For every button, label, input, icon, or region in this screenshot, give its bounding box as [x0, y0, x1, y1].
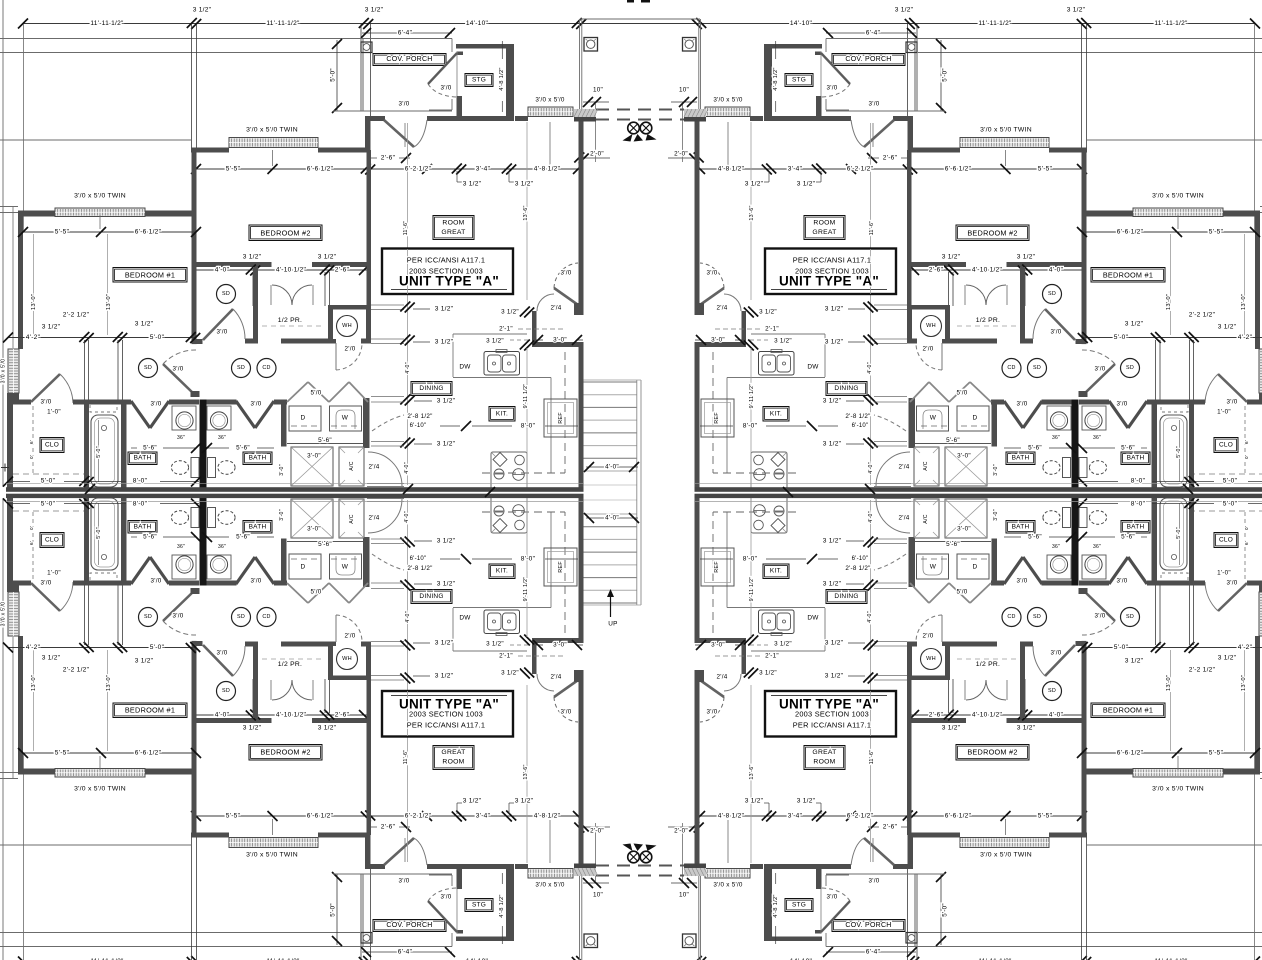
svg-text:3'-0": 3'-0" [957, 453, 971, 460]
svg-text:6'-6 1/2": 6'-6 1/2" [135, 750, 162, 757]
svg-text:3 1/2": 3 1/2" [435, 339, 454, 346]
svg-text:6'-6 1/2": 6'-6 1/2" [945, 166, 972, 173]
svg-text:6'-6 1/2": 6'-6 1/2" [1117, 229, 1144, 236]
svg-text:W: W [342, 415, 349, 422]
svg-text:3 1/2": 3 1/2" [135, 658, 154, 665]
svg-text:4'-2": 4'-2" [26, 334, 41, 341]
svg-text:5'/0: 5'/0 [957, 390, 968, 397]
svg-text:6'-4": 6'-4" [398, 30, 413, 37]
svg-text:STG: STG [792, 902, 806, 909]
svg-text:1'-0": 1'-0" [47, 409, 61, 416]
svg-text:2'/4: 2'/4 [551, 674, 562, 681]
svg-text:BATH: BATH [1012, 524, 1030, 531]
svg-text:0': 0' [29, 526, 34, 530]
svg-text:5'-6": 5'-6" [1028, 534, 1042, 541]
svg-text:3'/0: 3'/0 [399, 101, 410, 108]
svg-text:2'/0: 2'/0 [923, 633, 934, 640]
svg-text:13'-0": 13'-0" [31, 675, 37, 691]
svg-text:D: D [973, 415, 978, 422]
svg-text:6'-2 1/2": 6'-2 1/2" [847, 166, 874, 173]
svg-text:6'-2 1/2": 6'-2 1/2" [847, 813, 874, 820]
svg-text:CD: CD [1007, 614, 1015, 620]
svg-text:3'/0: 3'/0 [1051, 650, 1062, 657]
svg-text:2'/4: 2'/4 [369, 515, 380, 522]
svg-text:2'-2 1/2": 2'-2 1/2" [63, 312, 90, 319]
svg-text:3 1/2": 3 1/2" [318, 725, 337, 732]
svg-text:10": 10" [593, 87, 603, 94]
svg-text:3'-4": 3'-4" [788, 166, 803, 173]
svg-text:4'-0": 4'-0" [215, 712, 230, 719]
svg-text:3'/0: 3'/0 [441, 894, 452, 901]
svg-text:8'-0": 8'-0" [743, 556, 758, 563]
svg-text:5'-5": 5'-5" [55, 229, 70, 236]
svg-text:11'-11 1/2": 11'-11 1/2" [90, 20, 124, 27]
svg-text:6': 6' [1244, 440, 1249, 444]
svg-text:3 1/2": 3 1/2" [1017, 254, 1036, 261]
svg-text:0': 0' [1244, 526, 1249, 530]
svg-text:3 1/2": 3 1/2" [1125, 658, 1144, 665]
svg-text:KIT.: KIT. [496, 411, 508, 418]
svg-text:3'/0: 3'/0 [151, 578, 162, 585]
svg-text:5'-6": 5'-6" [318, 541, 332, 548]
svg-text:3 1/2": 3 1/2" [243, 254, 262, 261]
svg-text:CD: CD [262, 365, 270, 371]
svg-text:A/C: A/C [349, 514, 355, 523]
svg-text:36": 36" [1093, 544, 1101, 550]
svg-text:2'/4: 2'/4 [899, 464, 910, 471]
svg-text:5'-0": 5'-0" [1114, 334, 1129, 341]
svg-text:2'-2 1/2": 2'-2 1/2" [1189, 312, 1216, 319]
svg-text:W: W [930, 564, 937, 571]
svg-text:DINING: DINING [834, 385, 858, 392]
svg-text:2'-6": 2'-6" [883, 155, 898, 162]
svg-text:4'-0": 4'-0" [405, 611, 411, 623]
svg-text:DINING: DINING [419, 593, 443, 600]
svg-text:1/2 PR.: 1/2 PR. [976, 661, 1000, 668]
svg-text:5'-0": 5'-0" [1114, 644, 1129, 651]
svg-text:5'-5": 5'-5" [1209, 229, 1224, 236]
svg-text:BEDROOM #2: BEDROOM #2 [260, 229, 310, 238]
svg-text:3 1/2": 3 1/2" [797, 798, 816, 805]
svg-text:13'-6": 13'-6" [749, 205, 755, 220]
svg-text:GREAT: GREAT [812, 749, 836, 756]
svg-text:6'-4": 6'-4" [398, 949, 413, 956]
svg-text:6'-6 1/2": 6'-6 1/2" [135, 229, 162, 236]
svg-text:3 1/2": 3 1/2" [797, 181, 816, 188]
svg-text:8'-0": 8'-0" [1131, 478, 1146, 485]
svg-text:3 1/2": 3 1/2" [1218, 324, 1237, 331]
svg-text:2'-6": 2'-6" [929, 712, 944, 719]
svg-text:6'-2 1/2": 6'-2 1/2" [405, 813, 432, 820]
svg-text:1/2 PR.: 1/2 PR. [278, 317, 302, 324]
svg-text:0': 0' [29, 455, 34, 459]
svg-text:3'/0 x 5'/0: 3'/0 x 5'/0 [1, 359, 7, 384]
svg-text:SD: SD [237, 614, 245, 620]
svg-text:DW: DW [459, 364, 471, 371]
svg-text:11'-11 1/2": 11'-11 1/2" [266, 20, 300, 27]
svg-text:3 1/2": 3 1/2" [501, 670, 519, 677]
svg-text:1/2 PR.: 1/2 PR. [278, 661, 302, 668]
svg-text:3'/0 x 5'/0 TWIN: 3'/0 x 5'/0 TWIN [980, 852, 1032, 859]
svg-text:BATH: BATH [249, 455, 267, 462]
svg-text:2'/0: 2'/0 [345, 633, 356, 640]
svg-text:4'-10 1/2": 4'-10 1/2" [972, 712, 1003, 719]
svg-text:3'-4": 3'-4" [476, 166, 491, 173]
svg-text:COV. PORCH: COV. PORCH [845, 922, 891, 929]
svg-text:4'-8 1/2": 4'-8 1/2" [534, 813, 561, 820]
svg-text:3 1/2": 3 1/2" [42, 655, 61, 662]
svg-text:WH: WH [342, 323, 352, 329]
svg-text:2'-6": 2'-6" [381, 824, 396, 831]
svg-text:4'-0": 4'-0" [868, 511, 874, 523]
svg-text:GREAT: GREAT [441, 229, 465, 236]
svg-text:4'-0": 4'-0" [404, 462, 410, 474]
svg-text:3 1/2": 3 1/2" [435, 306, 454, 313]
svg-text:CD: CD [1007, 365, 1015, 371]
svg-text:3'/0 x 5'/0: 3'/0 x 5'/0 [535, 882, 565, 889]
svg-text:3'/0: 3'/0 [41, 580, 52, 587]
svg-text:3'-0": 3'-0" [711, 642, 725, 649]
svg-text:3'/0 x 5'/0 TWIN: 3'/0 x 5'/0 TWIN [1152, 193, 1204, 200]
svg-text:3 1/2": 3 1/2" [825, 673, 844, 680]
svg-text:5'-5": 5'-5" [226, 166, 241, 173]
svg-text:5'-0": 5'-0" [96, 446, 102, 458]
svg-text:4'-8 1/2": 4'-8 1/2" [499, 67, 505, 90]
svg-text:4'-8 1/2": 4'-8 1/2" [718, 166, 745, 173]
svg-text:36": 36" [177, 544, 185, 550]
svg-text:BATH: BATH [249, 524, 267, 531]
svg-text:9'-11 1/2": 9'-11 1/2" [523, 577, 529, 602]
svg-text:3'/0: 3'/0 [561, 709, 572, 716]
svg-text:SD: SD [1033, 614, 1041, 620]
svg-text:3'/0 x 5'/0 TWIN: 3'/0 x 5'/0 TWIN [246, 127, 298, 134]
svg-text:3'/0: 3'/0 [707, 270, 718, 277]
svg-text:10": 10" [679, 892, 689, 899]
svg-text:8'-0": 8'-0" [1131, 501, 1146, 508]
svg-text:5'/0: 5'/0 [311, 390, 322, 397]
svg-text:3'/0: 3'/0 [217, 329, 228, 336]
svg-text:DW: DW [807, 615, 819, 622]
svg-text:3'/0: 3'/0 [1117, 401, 1128, 408]
svg-text:3 1/2": 3 1/2" [942, 725, 961, 732]
svg-text:4'-2": 4'-2" [26, 644, 41, 651]
svg-text:3'/0 x 5'/0: 3'/0 x 5'/0 [713, 882, 743, 889]
svg-text:5'-6": 5'-6" [143, 445, 157, 452]
svg-text:D: D [301, 564, 306, 571]
svg-text:4'-10 1/2": 4'-10 1/2" [276, 712, 307, 719]
svg-text:5'-0": 5'-0" [150, 334, 165, 341]
svg-text:1'-0": 1'-0" [1217, 409, 1231, 416]
svg-text:36": 36" [218, 435, 226, 441]
svg-text:4'-8 1/2": 4'-8 1/2" [718, 813, 745, 820]
svg-text:DW: DW [807, 364, 819, 371]
svg-text:KIT.: KIT. [770, 568, 782, 575]
svg-text:2'-6": 2'-6" [883, 824, 898, 831]
svg-text:3 1/2": 3 1/2" [437, 581, 456, 588]
svg-text:36": 36" [1093, 435, 1101, 441]
svg-text:4'-0": 4'-0" [867, 611, 873, 623]
svg-text:3 1/2": 3 1/2" [942, 254, 961, 261]
svg-text:3'-0": 3'-0" [553, 642, 567, 649]
svg-text:3 1/2": 3 1/2" [823, 581, 842, 588]
svg-text:3'-0": 3'-0" [993, 464, 999, 476]
svg-text:4'-0": 4'-0" [215, 267, 230, 274]
svg-text:2'/0: 2'/0 [923, 346, 934, 353]
svg-text:STG: STG [472, 902, 486, 909]
svg-text:13'-0": 13'-0" [106, 675, 112, 691]
svg-text:BEDROOM #2: BEDROOM #2 [260, 748, 310, 757]
svg-text:4'-8 1/2": 4'-8 1/2" [773, 894, 779, 917]
svg-text:2'-8 1/2": 2'-8 1/2" [845, 413, 870, 420]
svg-text:UNIT TYPE "A": UNIT TYPE "A" [779, 274, 879, 289]
svg-text:2'-6": 2'-6" [335, 267, 350, 274]
svg-text:3'-4": 3'-4" [788, 813, 803, 820]
svg-text:9'-11 1/2": 9'-11 1/2" [749, 577, 755, 602]
svg-text:BEDROOM #1: BEDROOM #1 [1103, 271, 1153, 280]
svg-text:REF: REF [558, 561, 564, 573]
svg-text:0': 0' [1244, 455, 1249, 459]
svg-text:5'/0: 5'/0 [957, 589, 968, 596]
svg-text:11'-6": 11'-6" [869, 221, 875, 236]
svg-text:3 1/2": 3 1/2" [435, 673, 454, 680]
svg-text:14'-10": 14'-10" [790, 20, 813, 27]
svg-text:3'/0: 3'/0 [1227, 399, 1238, 406]
svg-text:3 1/2": 3 1/2" [437, 398, 456, 405]
svg-text:PER ICC/ANSI A117.1: PER ICC/ANSI A117.1 [793, 721, 872, 730]
svg-text:BATH: BATH [1012, 455, 1030, 462]
svg-text:3'/0: 3'/0 [441, 85, 452, 92]
svg-text:5'-0": 5'-0" [330, 903, 337, 917]
svg-text:13'-0": 13'-0" [31, 294, 37, 310]
svg-text:3 1/2": 3 1/2" [318, 254, 337, 261]
svg-text:3 1/2": 3 1/2" [515, 181, 534, 188]
svg-text:2'-0": 2'-0" [590, 151, 604, 158]
svg-text:5'-0": 5'-0" [1176, 527, 1182, 539]
svg-text:DINING: DINING [834, 593, 858, 600]
svg-text:3 1/2": 3 1/2" [193, 7, 212, 14]
svg-text:1'-0": 1'-0" [1217, 570, 1231, 577]
svg-text:BEDROOM #2: BEDROOM #2 [967, 748, 1017, 757]
svg-text:3'/0: 3'/0 [1117, 578, 1128, 585]
svg-text:5'-6": 5'-6" [236, 534, 250, 541]
svg-text:14'-10": 14'-10" [466, 20, 489, 27]
svg-text:5'-0": 5'-0" [41, 501, 56, 508]
svg-text:3 1/2": 3 1/2" [486, 338, 504, 345]
svg-text:5'-5": 5'-5" [226, 813, 241, 820]
svg-text:BATH: BATH [134, 524, 152, 531]
svg-text:PER ICC/ANSI A117.1: PER ICC/ANSI A117.1 [407, 256, 486, 265]
svg-text:3'/0: 3'/0 [561, 270, 572, 277]
svg-text:2'-1": 2'-1" [765, 653, 779, 660]
svg-text:8'-0": 8'-0" [521, 423, 536, 430]
svg-text:ROOM: ROOM [442, 759, 464, 766]
svg-text:2'-0": 2'-0" [674, 828, 688, 835]
svg-text:WH: WH [926, 656, 936, 662]
svg-text:3'/0: 3'/0 [1051, 329, 1062, 336]
svg-text:3'-0": 3'-0" [957, 526, 971, 533]
svg-text:D: D [301, 415, 306, 422]
svg-text:4'-0": 4'-0" [404, 511, 410, 523]
svg-text:4'-0": 4'-0" [867, 362, 873, 374]
svg-text:5'-6": 5'-6" [1028, 445, 1042, 452]
svg-text:5'-0": 5'-0" [1223, 501, 1238, 508]
svg-text:2'/0: 2'/0 [345, 346, 356, 353]
svg-text:2'-2 1/2": 2'-2 1/2" [63, 667, 90, 674]
svg-text:SD: SD [1126, 614, 1134, 620]
svg-text:1'-0": 1'-0" [47, 570, 61, 577]
svg-text:3 1/2": 3 1/2" [823, 398, 842, 405]
svg-text:5'-0": 5'-0" [942, 903, 949, 917]
svg-text:SD: SD [222, 688, 230, 694]
svg-text:5'-6": 5'-6" [946, 437, 960, 444]
svg-text:11'-6": 11'-6" [403, 221, 409, 236]
svg-text:4'-0": 4'-0" [868, 462, 874, 474]
svg-text:3'/0: 3'/0 [1095, 366, 1106, 373]
svg-text:36": 36" [1052, 544, 1060, 550]
svg-text:6'-6 1/2": 6'-6 1/2" [1117, 750, 1144, 757]
svg-text:13'-6": 13'-6" [749, 764, 755, 779]
svg-text:3'/0: 3'/0 [827, 85, 838, 92]
svg-text:3'/0: 3'/0 [151, 401, 162, 408]
svg-text:BEDROOM #1: BEDROOM #1 [1103, 706, 1153, 715]
svg-text:WH: WH [342, 656, 352, 662]
svg-text:5'-6": 5'-6" [236, 445, 250, 452]
svg-text:KIT.: KIT. [496, 568, 508, 575]
svg-text:2'-0": 2'-0" [674, 151, 688, 158]
svg-text:5'-6": 5'-6" [1121, 534, 1135, 541]
svg-text:D: D [973, 564, 978, 571]
svg-text:A/C: A/C [923, 514, 929, 523]
svg-text:3'/0 x 5'/0 TWIN: 3'/0 x 5'/0 TWIN [246, 852, 298, 859]
svg-text:3'/0: 3'/0 [217, 650, 228, 657]
svg-text:3'/0: 3'/0 [1227, 580, 1238, 587]
svg-text:6'-10": 6'-10" [410, 556, 427, 562]
svg-text:SD: SD [1048, 688, 1056, 694]
svg-text:ROOM: ROOM [813, 759, 835, 766]
svg-text:6'-4": 6'-4" [866, 949, 881, 956]
svg-text:8'-0": 8'-0" [133, 501, 148, 508]
svg-text:2'-8 1/2": 2'-8 1/2" [407, 413, 432, 420]
svg-text:COV. PORCH: COV. PORCH [386, 56, 432, 63]
svg-text:3'/0 x 5'/0 TWIN: 3'/0 x 5'/0 TWIN [1152, 786, 1204, 793]
svg-text:GREAT: GREAT [812, 229, 836, 236]
svg-text:4'-8 1/2": 4'-8 1/2" [534, 166, 561, 173]
svg-text:3'/0: 3'/0 [251, 401, 262, 408]
svg-text:ROOM: ROOM [813, 220, 835, 227]
svg-text:3'/0: 3'/0 [1017, 401, 1028, 408]
svg-text:36": 36" [218, 544, 226, 550]
svg-text:BEDROOM #1: BEDROOM #1 [125, 706, 175, 715]
svg-text:SD: SD [144, 614, 152, 620]
svg-text:6'-6 1/2": 6'-6 1/2" [307, 166, 334, 173]
svg-text:2'-1": 2'-1" [765, 326, 779, 333]
svg-text:5'-5": 5'-5" [55, 750, 70, 757]
svg-text:WH: WH [926, 323, 936, 329]
svg-text:4'-0": 4'-0" [1049, 267, 1064, 274]
svg-text:BATH: BATH [134, 455, 152, 462]
svg-text:3'-0": 3'-0" [279, 509, 285, 521]
svg-text:13'-0": 13'-0" [1166, 294, 1172, 310]
svg-text:8'-0": 8'-0" [133, 478, 148, 485]
svg-text:UNIT TYPE "A": UNIT TYPE "A" [399, 274, 499, 289]
svg-text:3'/0: 3'/0 [869, 101, 880, 108]
svg-text:3'/0: 3'/0 [869, 878, 880, 885]
svg-text:3'-4": 3'-4" [476, 813, 491, 820]
svg-text:3 1/2": 3 1/2" [42, 324, 61, 331]
svg-text:6'-10": 6'-10" [410, 423, 427, 429]
svg-text:2'-2 1/2": 2'-2 1/2" [1189, 667, 1216, 674]
svg-text:3'-0": 3'-0" [279, 464, 285, 476]
svg-text:3'/0 x 5'/0: 3'/0 x 5'/0 [713, 97, 743, 104]
svg-text:10": 10" [679, 87, 689, 94]
svg-text:3 1/2": 3 1/2" [435, 640, 454, 647]
svg-text:3'/0: 3'/0 [707, 709, 718, 716]
svg-text:3 1/2": 3 1/2" [774, 338, 792, 345]
svg-text:10": 10" [593, 892, 603, 899]
svg-text:STG: STG [792, 77, 806, 84]
svg-text:5'-0": 5'-0" [1176, 446, 1182, 458]
svg-text:3 1/2": 3 1/2" [759, 670, 777, 677]
svg-text:6'-10": 6'-10" [852, 556, 869, 562]
svg-text:8'-0": 8'-0" [521, 556, 536, 563]
svg-text:SD: SD [1126, 365, 1134, 371]
svg-text:2'/4: 2'/4 [369, 464, 380, 471]
svg-text:BATH: BATH [1127, 524, 1145, 531]
svg-text:6': 6' [1244, 541, 1249, 545]
svg-text:SD: SD [1033, 365, 1041, 371]
svg-text:CLO: CLO [45, 537, 59, 544]
svg-text:9'-11 1/2": 9'-11 1/2" [523, 384, 529, 409]
svg-text:UNIT TYPE "A": UNIT TYPE "A" [779, 697, 879, 712]
svg-text:3'-0": 3'-0" [553, 337, 567, 344]
svg-text:13'-0": 13'-0" [1241, 675, 1247, 691]
svg-text:11'-11 1/2": 11'-11 1/2" [1154, 20, 1188, 27]
svg-text:3 1/2": 3 1/2" [823, 441, 842, 448]
svg-text:5'-0": 5'-0" [942, 68, 949, 82]
svg-text:3 1/2": 3 1/2" [745, 798, 764, 805]
svg-text:3 1/2": 3 1/2" [823, 538, 842, 545]
svg-text:3'/0: 3'/0 [173, 366, 184, 373]
svg-text:3 1/2": 3 1/2" [1218, 655, 1237, 662]
svg-text:6'-2 1/2": 6'-2 1/2" [405, 166, 432, 173]
svg-text:W: W [342, 564, 349, 571]
svg-text:KIT.: KIT. [770, 411, 782, 418]
svg-text:3'-0": 3'-0" [307, 453, 321, 460]
svg-text:3 1/2": 3 1/2" [501, 309, 519, 316]
svg-text:2'-0": 2'-0" [590, 828, 604, 835]
svg-text:SD: SD [222, 291, 230, 297]
svg-text:36": 36" [177, 435, 185, 441]
svg-text:5'/0: 5'/0 [311, 589, 322, 596]
svg-text:COV. PORCH: COV. PORCH [386, 922, 432, 929]
svg-text:3'/0: 3'/0 [1095, 613, 1106, 620]
svg-text:CD: CD [262, 614, 270, 620]
svg-text:5'-6": 5'-6" [946, 541, 960, 548]
svg-text:36": 36" [1052, 435, 1060, 441]
svg-text:3 1/2": 3 1/2" [437, 538, 456, 545]
svg-text:REF: REF [714, 412, 720, 424]
svg-text:3'/0: 3'/0 [173, 613, 184, 620]
svg-text:3 1/2": 3 1/2" [825, 640, 844, 647]
svg-text:6': 6' [29, 541, 34, 545]
svg-text:5'-0": 5'-0" [96, 527, 102, 539]
svg-text:SD: SD [1048, 291, 1056, 297]
svg-text:1/2 PR.: 1/2 PR. [976, 317, 1000, 324]
svg-text:BATH: BATH [1127, 455, 1145, 462]
svg-text:CLO: CLO [1219, 442, 1233, 449]
svg-text:2'-6": 2'-6" [335, 712, 350, 719]
svg-text:4'-10 1/2": 4'-10 1/2" [276, 267, 307, 274]
